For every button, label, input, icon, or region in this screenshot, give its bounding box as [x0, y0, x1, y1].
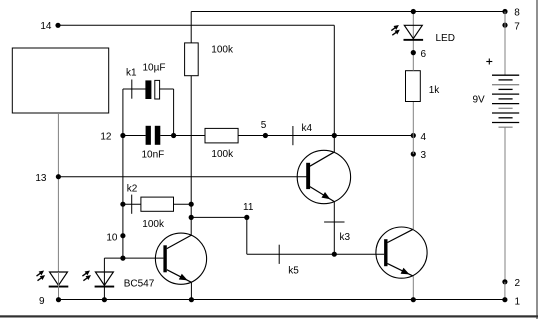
- node 10: [106, 232, 125, 243]
- battery BT1 9V: [492, 75, 519, 127]
- svg-text:3: 3: [421, 150, 427, 161]
- junction C1/C2: [171, 133, 176, 138]
- wire LED cathode to node 6 (passes through LED): [412, 12, 414, 53]
- svg-text:BC547: BC547: [124, 279, 155, 290]
- node 2: [502, 278, 520, 289]
- junction Q3 emitter / bottom rail: [411, 297, 416, 302]
- label 10nF: [142, 150, 165, 161]
- label 1k: [429, 85, 441, 96]
- junction 11-wire: [189, 215, 194, 220]
- wire top rail: [191, 11, 505, 13]
- wire box to LED1 (through node 13): [57, 113, 59, 272]
- LED D3 (bottom second): [95, 272, 115, 288]
- resistor R2 100k horizontal: [205, 128, 238, 143]
- wire node13 to Q1 base: [58, 176, 306, 178]
- node 7: [502, 21, 520, 32]
- svg-text:9V: 9V: [473, 95, 486, 106]
- label LED: [436, 33, 455, 44]
- wire left vertical node12 to base junction: [122, 136, 124, 259]
- label 100k (R3): [142, 219, 165, 230]
- wire LED D2 cathode to node 9: [58, 272, 60, 300]
- node 12: [100, 132, 125, 143]
- junction R3/vertical: [189, 202, 194, 207]
- svg-text:4: 4: [421, 132, 427, 143]
- svg-text:k5: k5: [288, 265, 299, 276]
- junction k4/collector: [332, 133, 337, 138]
- wire node5 through k4 to junction: [265, 135, 334, 137]
- LED D1 (top): [404, 25, 424, 41]
- wire LED2 branch vertical: [103, 258, 105, 272]
- wire Q1 emitter down through k3: [333, 202, 335, 255]
- svg-text:14: 14: [40, 21, 52, 32]
- wire node12 up-left of k1 loop: [122, 89, 124, 136]
- wire junction to node 4: [334, 135, 413, 137]
- LED D2 (bottom left): [49, 272, 69, 288]
- svg-text:10: 10: [106, 232, 118, 243]
- LED D2 light arrows: [37, 271, 46, 281]
- node 8: [502, 8, 520, 19]
- junction k2 left: [120, 202, 125, 207]
- wire R2 to node 5: [238, 135, 265, 137]
- wire node2 to node1: [504, 282, 506, 300]
- capacitor C1 10uF plus plate: [145, 80, 151, 99]
- node 6: [411, 49, 427, 60]
- label 100k (R2): [211, 149, 234, 160]
- svg-text:10µF: 10µF: [143, 63, 166, 74]
- label k5: [288, 265, 299, 276]
- svg-text:1k: 1k: [429, 85, 441, 96]
- wire LED2 branch horizontal: [104, 257, 123, 259]
- svg-text:100k: 100k: [211, 149, 234, 160]
- svg-text:11: 11: [243, 202, 254, 213]
- node 11: [243, 202, 254, 220]
- node 9: [39, 296, 61, 307]
- wire to node 11: [191, 216, 247, 218]
- contact k1: [131, 80, 133, 99]
- contact k5: [278, 245, 280, 264]
- wire right side of k1 loop: [173, 89, 175, 136]
- label BC547: [124, 279, 155, 290]
- node 3: [411, 150, 427, 161]
- node 14: [40, 21, 60, 32]
- wire node8 to battery: [504, 12, 506, 76]
- wire node11 to Q3 base (through k5): [247, 253, 384, 255]
- wire Q2 emitter stub: [190, 282, 192, 299]
- node 13: [35, 173, 61, 184]
- wire Q2 collector stub: [190, 217, 192, 235]
- node 1: [502, 296, 520, 307]
- transistor Q2 BC547: [155, 233, 206, 284]
- wire battery to node 2: [504, 127, 506, 282]
- wire k2 junction to node11 junction: [190, 204, 192, 217]
- junction LED D3 / bottom rail: [102, 297, 107, 302]
- node 5: [261, 120, 268, 138]
- resistor R4 1k: [406, 71, 421, 102]
- label 10uF: [143, 63, 166, 74]
- label k4: [302, 123, 313, 134]
- wire bottom rail: [59, 299, 505, 301]
- svg-text:9: 9: [39, 296, 45, 307]
- svg-text:k3: k3: [340, 232, 351, 243]
- junction top rail / LED: [411, 9, 416, 14]
- wire k4 junction vertical (to Q1 collector): [333, 25, 335, 152]
- svg-text:k4: k4: [302, 123, 313, 134]
- svg-text:5: 5: [261, 120, 267, 131]
- wire node12 to C2: [123, 135, 146, 137]
- svg-text:LED: LED: [436, 33, 455, 44]
- junction k3/k5/Q3-base: [332, 252, 337, 257]
- wire LED D3 cathode to bottom rail: [103, 272, 105, 300]
- wire node4 to node3: [412, 136, 414, 155]
- wire 1k bottom to node 4: [412, 102, 414, 136]
- wire C1 to right vertical: [159, 88, 173, 90]
- wire node11 down: [246, 217, 248, 254]
- contact k4: [292, 126, 294, 145]
- wire k1 horizontal: [123, 88, 146, 90]
- wire C2 to junction: [160, 135, 173, 137]
- svg-text:12: 12: [100, 132, 112, 143]
- svg-text:2: 2: [515, 278, 521, 289]
- svg-text:100k: 100k: [142, 219, 165, 230]
- wire k2 horizontal: [123, 203, 141, 205]
- label 9V: [473, 95, 486, 106]
- module box: [12, 48, 108, 113]
- capacitor C2 10nF right plate: [155, 126, 161, 145]
- node 4: [411, 132, 427, 143]
- label k3: [340, 232, 351, 243]
- label k2: [127, 184, 138, 195]
- svg-text:1: 1: [515, 296, 521, 307]
- wire R3 to junction: [174, 203, 192, 205]
- svg-text:k1: k1: [126, 68, 137, 79]
- resistor R 100k vertical: [185, 43, 199, 76]
- capacitor C2 10nF left plate: [146, 126, 151, 145]
- contact k3: [324, 221, 344, 223]
- resistor R3 100k (k2 branch): [141, 197, 174, 211]
- label + (battery positive): [486, 59, 492, 65]
- junction Q2 emitter / bottom rail: [189, 297, 194, 302]
- svg-text:8: 8: [514, 8, 520, 19]
- contact k2: [131, 195, 133, 214]
- svg-text:10nF: 10nF: [142, 150, 165, 161]
- wire node6 to 1k top: [412, 53, 414, 71]
- label 100k (vertical resistor): [211, 45, 234, 56]
- wire junction to R2: [174, 135, 205, 137]
- junction Q2 base wire: [120, 256, 125, 261]
- LED D1 light arrows: [391, 25, 400, 35]
- transistor Q3: [376, 227, 427, 278]
- svg-text:100k: 100k: [211, 45, 234, 56]
- window bottom border: [0, 315, 538, 317]
- transistor Q1: [297, 150, 350, 203]
- wire base junction to Q2: [123, 257, 163, 259]
- label k1: [126, 68, 137, 79]
- wire Q3 collector up to node 3: [412, 154, 414, 229]
- LED D3 light arrows: [82, 271, 91, 281]
- svg-text:13: 13: [35, 173, 47, 184]
- wire Q3 emitter to bottom rail: [412, 276, 414, 299]
- wire top rail to R1 top: [190, 12, 192, 43]
- svg-text:6: 6: [421, 49, 427, 60]
- wire R1 bottom down to k2 junction: [190, 76, 192, 205]
- window right border: [536, 0, 538, 319]
- capacitor C1 10uF minus plate: [155, 80, 160, 99]
- wire node14 to k4 junction (horizontal): [58, 24, 334, 26]
- svg-text:k2: k2: [127, 184, 138, 195]
- svg-text:7: 7: [514, 21, 520, 32]
